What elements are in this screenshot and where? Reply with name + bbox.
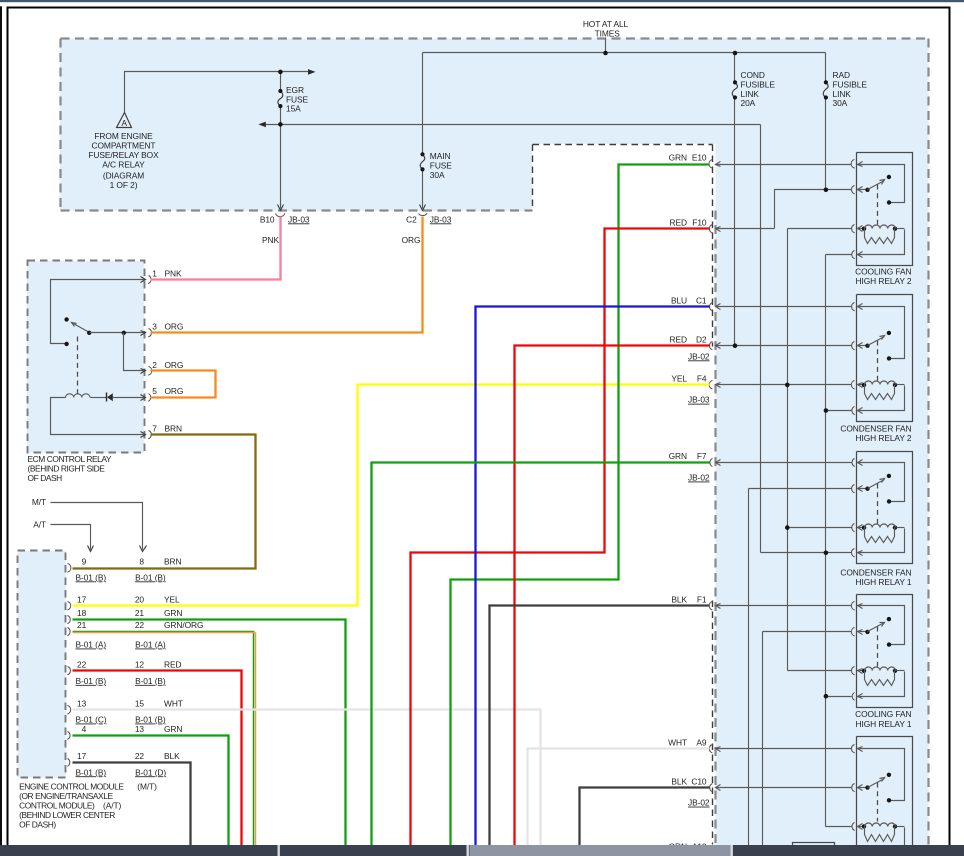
svg-text:B-01 (C): B-01 (C) xyxy=(76,715,107,725)
svg-text:M/T: M/T xyxy=(32,497,46,507)
svg-text:13: 13 xyxy=(135,724,145,734)
svg-text:(BEHIND LOWER CENTER: (BEHIND LOWER CENTER xyxy=(19,810,115,820)
svg-text:F7: F7 xyxy=(697,451,707,461)
svg-text:4: 4 xyxy=(82,724,87,734)
svg-text:C10: C10 xyxy=(691,776,707,786)
svg-text:A/T: A/T xyxy=(33,520,46,530)
svg-text:17: 17 xyxy=(77,595,87,605)
svg-text:GRN/ORG: GRN/ORG xyxy=(164,620,203,630)
svg-text:BLK: BLK xyxy=(671,595,687,605)
svg-text:GRN: GRN xyxy=(164,724,182,734)
svg-text:BRN: BRN xyxy=(164,557,181,567)
svg-text:B-01 (B): B-01 (B) xyxy=(135,572,166,582)
svg-text:CONDENSER FAN: CONDENSER FAN xyxy=(840,423,911,433)
svg-text:C1: C1 xyxy=(696,295,707,305)
svg-text:E10: E10 xyxy=(692,153,707,163)
svg-text:F1: F1 xyxy=(697,595,707,605)
svg-text:BLK: BLK xyxy=(164,751,180,761)
svg-text:1 OF 2): 1 OF 2) xyxy=(110,180,138,190)
svg-text:1: 1 xyxy=(152,268,157,278)
svg-text:13: 13 xyxy=(77,699,87,709)
svg-text:A9: A9 xyxy=(696,738,707,748)
svg-text:OF DASH): OF DASH) xyxy=(19,819,56,829)
svg-text:8: 8 xyxy=(139,557,144,567)
svg-text:HIGH RELAY 1: HIGH RELAY 1 xyxy=(856,577,912,587)
svg-text:B-01 (D): B-01 (D) xyxy=(135,767,166,777)
svg-text:21: 21 xyxy=(77,620,87,630)
svg-text:22: 22 xyxy=(77,659,87,669)
svg-text:HIGH RELAY 2: HIGH RELAY 2 xyxy=(856,433,912,443)
svg-text:ORG: ORG xyxy=(165,386,184,396)
svg-text:20A: 20A xyxy=(741,98,756,108)
svg-text:30A: 30A xyxy=(430,170,445,180)
svg-text:B-01 (B): B-01 (B) xyxy=(135,715,166,725)
svg-text:B-01 (A): B-01 (A) xyxy=(76,640,107,650)
svg-text:BRN: BRN xyxy=(165,424,182,434)
svg-text:TIMES: TIMES xyxy=(595,28,621,38)
svg-text:BLK: BLK xyxy=(671,776,687,786)
svg-text:22: 22 xyxy=(135,620,145,630)
svg-text:HIGH RELAY 1: HIGH RELAY 1 xyxy=(856,719,912,729)
svg-text:ORG: ORG xyxy=(165,360,184,370)
svg-text:WHT: WHT xyxy=(668,738,687,748)
svg-text:RED: RED xyxy=(164,659,181,669)
svg-text:(M/T): (M/T) xyxy=(137,782,157,792)
svg-text:F4: F4 xyxy=(697,374,707,384)
svg-text:YEL: YEL xyxy=(671,374,687,384)
svg-text:ORG: ORG xyxy=(165,322,184,332)
svg-text:21: 21 xyxy=(135,608,145,618)
svg-text:B-01 (B): B-01 (B) xyxy=(76,676,107,686)
svg-text:RED: RED xyxy=(670,334,687,344)
svg-text:C2: C2 xyxy=(406,214,417,224)
svg-text:ENGINE CONTROL MODULE: ENGINE CONTROL MODULE xyxy=(19,782,124,792)
svg-text:BLU: BLU xyxy=(671,295,687,305)
svg-text:5: 5 xyxy=(152,386,157,396)
svg-text:20: 20 xyxy=(135,595,145,605)
svg-text:PNK: PNK xyxy=(262,235,279,245)
svg-text:B-01 (B): B-01 (B) xyxy=(76,767,107,777)
svg-text:JB-03: JB-03 xyxy=(430,214,452,224)
svg-text:18: 18 xyxy=(77,608,87,618)
svg-text:ECM CONTROL RELAY: ECM CONTROL RELAY xyxy=(28,454,112,464)
svg-text:15A: 15A xyxy=(286,104,301,114)
svg-text:15: 15 xyxy=(135,699,145,709)
svg-text:ORG: ORG xyxy=(402,235,421,245)
svg-text:B-01 (B): B-01 (B) xyxy=(135,676,166,686)
svg-text:B-01 (A): B-01 (A) xyxy=(135,640,166,650)
svg-text:GRN: GRN xyxy=(669,451,687,461)
svg-text:WHT: WHT xyxy=(164,699,183,709)
svg-text:HIGH RELAY 2: HIGH RELAY 2 xyxy=(856,276,912,286)
svg-text:A: A xyxy=(122,119,128,128)
svg-text:3: 3 xyxy=(152,322,157,332)
svg-text:9: 9 xyxy=(82,557,87,567)
svg-text:F10: F10 xyxy=(692,218,707,228)
svg-text:7: 7 xyxy=(152,424,157,434)
svg-text:30A: 30A xyxy=(833,98,848,108)
svg-text:RED: RED xyxy=(670,218,687,228)
svg-text:JB-03: JB-03 xyxy=(688,395,710,405)
svg-text:COOLING FAN: COOLING FAN xyxy=(855,266,911,276)
svg-text:22: 22 xyxy=(135,751,145,761)
svg-text:17: 17 xyxy=(77,751,87,761)
svg-text:12: 12 xyxy=(135,659,145,669)
svg-text:A/C RELAY: A/C RELAY xyxy=(102,159,145,169)
svg-text:GRN: GRN xyxy=(669,153,687,163)
svg-text:D2: D2 xyxy=(696,334,707,344)
svg-text:JB-02: JB-02 xyxy=(688,798,710,808)
svg-text:CONDENSER FAN: CONDENSER FAN xyxy=(840,567,911,577)
svg-text:PNK: PNK xyxy=(165,268,182,278)
svg-text:OF DASH: OF DASH xyxy=(28,473,63,483)
svg-text:COOLING FAN: COOLING FAN xyxy=(855,709,911,719)
svg-text:YEL: YEL xyxy=(164,595,180,605)
svg-text:JB-03: JB-03 xyxy=(288,214,310,224)
svg-text:GRN: GRN xyxy=(164,608,182,618)
svg-text:JB-02: JB-02 xyxy=(688,473,710,483)
svg-text:2: 2 xyxy=(152,360,157,370)
svg-text:B10: B10 xyxy=(260,214,275,224)
svg-text:JB-02: JB-02 xyxy=(688,351,710,361)
svg-text:B-01 (B): B-01 (B) xyxy=(76,572,107,582)
